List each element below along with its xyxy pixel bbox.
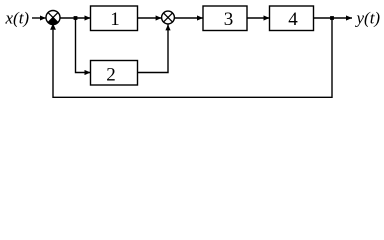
wire block 4 to output bbox=[314, 17, 353, 19]
wire branch down to block 2 bbox=[76, 18, 91, 73]
svg-text:x(t): x(t) bbox=[5, 9, 30, 28]
summing junction S2 bbox=[162, 11, 175, 24]
node branch junction J1 bbox=[74, 16, 78, 20]
wire S2 to block 3 bbox=[174, 17, 203, 19]
wire block 2 up into S2 bbox=[138, 24, 169, 72]
svg-text:2: 2 bbox=[106, 64, 116, 85]
wire input arrow into summing junction S1 bbox=[32, 17, 46, 19]
wire feedback loop bbox=[53, 18, 332, 97]
block 1 bbox=[91, 6, 138, 31]
svg-text:3: 3 bbox=[224, 9, 234, 30]
svg-text:y(t): y(t) bbox=[355, 9, 381, 28]
block 2 bbox=[91, 61, 138, 86]
wire block 1 to summing junction S2 bbox=[138, 17, 162, 19]
block 4 bbox=[270, 6, 314, 31]
wire S1 to block 1 bbox=[60, 17, 91, 19]
svg-text:4: 4 bbox=[288, 9, 298, 30]
summing junction S1 bbox=[46, 11, 60, 25]
wire block 3 to block 4 bbox=[247, 17, 270, 19]
svg-text:1: 1 bbox=[110, 9, 120, 30]
block 3 bbox=[203, 6, 247, 31]
node output branch junction J2 bbox=[330, 16, 334, 20]
wire feedback arrowhead into S1 bottom bbox=[50, 23, 56, 29]
